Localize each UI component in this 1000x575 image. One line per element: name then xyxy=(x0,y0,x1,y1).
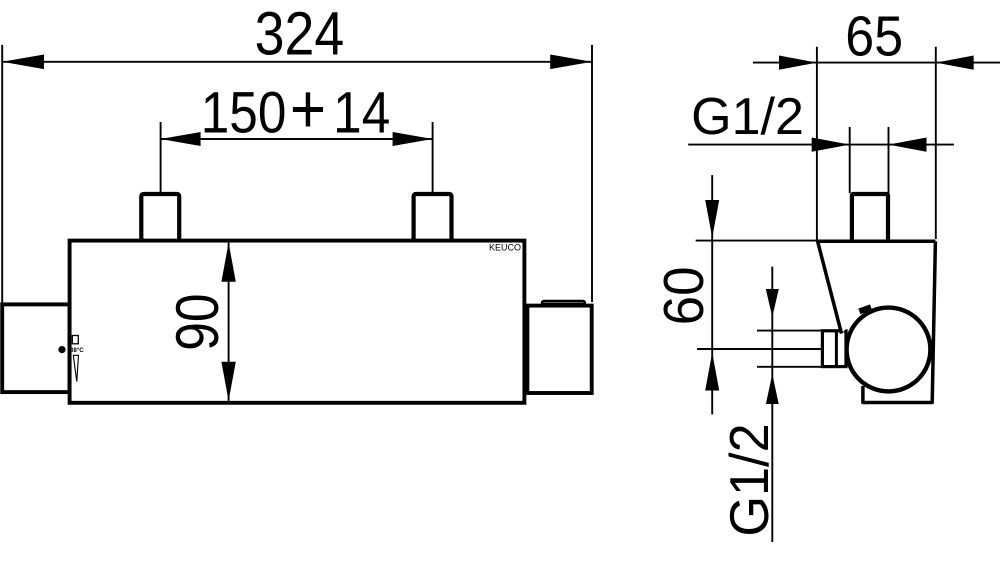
svg-text:38°C: 38°C xyxy=(70,347,84,354)
svg-text:65: 65 xyxy=(845,5,903,68)
svg-text:KEUCO: KEUCO xyxy=(489,243,521,253)
svg-text:G1/2: G1/2 xyxy=(719,423,781,536)
svg-text:150+14: 150+14 xyxy=(201,70,391,148)
svg-text:90: 90 xyxy=(163,293,231,350)
svg-text:G1/2: G1/2 xyxy=(691,88,804,146)
svg-text:60: 60 xyxy=(651,266,715,325)
svg-text:324: 324 xyxy=(255,0,345,68)
